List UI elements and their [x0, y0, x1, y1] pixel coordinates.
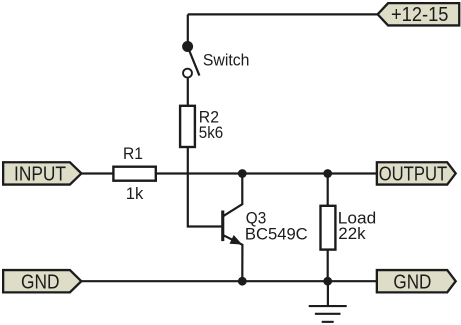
- svg-text:INPUT: INPUT: [14, 164, 66, 186]
- node: collector junction: [238, 169, 247, 178]
- input flag INPUT: [3, 162, 81, 185]
- label: Load 22k: [338, 208, 376, 243]
- node: load junction: [323, 169, 332, 178]
- svg-text:R1: R1: [123, 144, 143, 163]
- wire: input to R1: [81, 172, 114, 174]
- switch S: [182, 41, 199, 78]
- svg-text:GND: GND: [21, 272, 60, 294]
- svg-text:1k: 1k: [126, 184, 144, 203]
- output flag OUTPUT: [377, 162, 456, 185]
- svg-text:BC549C: BC549C: [245, 224, 308, 243]
- gnd flag left GND: [3, 270, 81, 293]
- svg-text:22k: 22k: [338, 224, 366, 243]
- wire: top rail down to switch: [187, 14, 189, 46]
- wire: load top: [327, 174, 329, 207]
- label: R2 5k6: [199, 107, 223, 142]
- svg-text:GND: GND: [393, 272, 431, 294]
- resistor Load: [321, 206, 336, 250]
- wire: +V top rail to power flag: [188, 13, 378, 15]
- resistor R2: [180, 106, 195, 147]
- wire: R2 to base corner (crosses signal line, no junction): [188, 147, 222, 227]
- ground symbol: [309, 281, 347, 322]
- node: emitter-ground junction: [238, 277, 247, 286]
- power flag +12-15: [378, 3, 460, 26]
- svg-text:Switch: Switch: [203, 51, 250, 70]
- svg-text:OUTPUT: OUTPUT: [379, 164, 448, 186]
- svg-text:+12-15: +12-15: [391, 4, 449, 26]
- transistor Q3: [221, 174, 242, 282]
- wire: ground rail: [81, 280, 377, 282]
- resistor R1: [113, 167, 155, 181]
- label: Q3 BC549C: [245, 209, 308, 244]
- wire: load bottom: [327, 250, 329, 282]
- gnd flag right GND: [377, 270, 456, 293]
- svg-text:5k6: 5k6: [199, 123, 223, 142]
- node: load-ground junction: [323, 277, 332, 286]
- wire: switch to R2: [187, 78, 189, 106]
- wire: signal line R1 to OUTPUT: [156, 172, 377, 174]
